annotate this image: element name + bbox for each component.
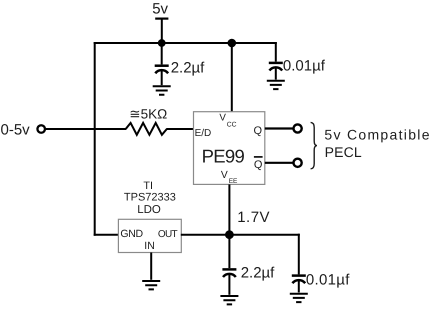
svg-text:OUT: OUT (158, 229, 178, 240)
svg-text:LDO: LDO (137, 204, 161, 216)
wire: IN pin down (150, 253, 152, 280)
pin label Vcc (219, 113, 236, 129)
node: junction at 5v rail (158, 39, 166, 47)
svg-text:5v: 5v (152, 0, 168, 17)
svg-text:V: V (219, 113, 226, 124)
svg-text:EE: EE (229, 178, 238, 185)
wire: resistor to E/D pin (166, 128, 194, 130)
op-amp U1 PE99 box (194, 112, 265, 185)
capacitor C3 2.2uf (bottom) (222, 235, 236, 295)
svg-text:E/D: E/D (195, 128, 212, 139)
wire: input to resistor (45, 128, 126, 130)
node: junction at 1.7V rail (225, 230, 234, 239)
svg-text:GND: GND (120, 228, 143, 240)
svg-text:2.2µf: 2.2µf (171, 60, 205, 77)
ground (below LDO IN) (142, 281, 160, 289)
regulator U2 LDO box (118, 219, 181, 252)
wire: OUT rail horizontal (181, 234, 300, 236)
wire: top rail horizontal (94, 42, 277, 44)
capacitor C1 2.2uf (top) (155, 43, 169, 85)
pin label Vee (221, 170, 238, 185)
svg-text:Q: Q (254, 159, 263, 171)
svg-text:V: V (221, 170, 228, 181)
wire: left rail vertical (94, 42, 96, 236)
pin label Qbar (254, 157, 263, 171)
svg-text:1.7V: 1.7V (237, 209, 270, 226)
capacitor C4 0.01uf (bottom) (292, 276, 306, 293)
capacitor C2 0.01uf (top) (269, 63, 283, 80)
ground (below C2) (267, 81, 285, 89)
svg-text:≅5KΩ: ≅5KΩ (129, 107, 167, 122)
svg-text:PE99: PE99 (202, 146, 245, 167)
svg-text:TPS72333: TPS72333 (124, 192, 176, 204)
resistor R1 5K (126, 123, 167, 135)
node: junction at Vcc tap (228, 39, 237, 48)
ground (below C4) (290, 294, 308, 302)
svg-text:IN: IN (144, 240, 155, 252)
svg-text:PECL: PECL (325, 144, 362, 160)
wire: Qbar output (265, 162, 293, 164)
power symbol 5v bar (155, 18, 168, 44)
wire: drop to C2 (275, 42, 277, 62)
wire: Vee pin down (228, 184, 230, 235)
wire: Vcc pin vertical (231, 43, 233, 112)
wire: Q output (265, 127, 293, 129)
brace for PECL outputs (311, 122, 317, 168)
svg-text:CC: CC (227, 121, 237, 128)
svg-text:Q: Q (254, 125, 263, 137)
ground (below C1) (153, 86, 171, 94)
svg-text:0-5v: 0-5v (1, 121, 31, 138)
terminal: Q open circle (294, 124, 302, 132)
wire: drop to C4 (298, 234, 300, 275)
wire: lower-left horizontal to LDO GND (94, 234, 120, 236)
svg-text:0.01µf: 0.01µf (283, 58, 326, 75)
svg-text:0.01µf: 0.01µf (306, 271, 350, 288)
terminal: input open circle (37, 125, 45, 133)
svg-text:2.2µf: 2.2µf (241, 264, 275, 281)
svg-text:5v Compatible: 5v Compatible (324, 127, 430, 143)
svg-text:TI: TI (143, 180, 153, 192)
ground (below C3) (220, 296, 238, 304)
terminal: Qbar open circle (294, 159, 302, 167)
